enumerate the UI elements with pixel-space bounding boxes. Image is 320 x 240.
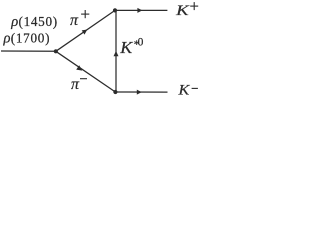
node left vertex xyxy=(54,49,58,53)
arrow on pi- line xyxy=(76,65,82,70)
wire pi- line xyxy=(56,51,116,92)
arrow on K+ line xyxy=(137,8,142,13)
arrow on K*0 line xyxy=(114,51,119,56)
svg-text:π: π xyxy=(71,76,80,93)
svg-text:K: K xyxy=(177,82,190,98)
wire K- outgoing line xyxy=(115,91,167,93)
svg-text:ρ: ρ xyxy=(3,30,11,46)
wire K+ outgoing line xyxy=(115,9,167,11)
arrow on pi+ line xyxy=(82,30,88,35)
svg-text:K: K xyxy=(119,38,134,57)
node top vertex xyxy=(113,8,117,12)
node bottom vertex xyxy=(113,90,117,94)
wire pi+ line xyxy=(56,10,115,51)
svg-text:ρ: ρ xyxy=(10,14,18,30)
svg-text:0: 0 xyxy=(138,36,144,48)
arrow on K- line xyxy=(137,90,142,95)
wire K*0 vertical line xyxy=(115,10,117,92)
wire incoming rho propagator xyxy=(1,50,56,52)
svg-text:K: K xyxy=(175,3,190,19)
svg-text:(1700): (1700) xyxy=(11,30,50,45)
svg-text:π: π xyxy=(70,12,79,29)
svg-text:(1450): (1450) xyxy=(19,14,58,29)
